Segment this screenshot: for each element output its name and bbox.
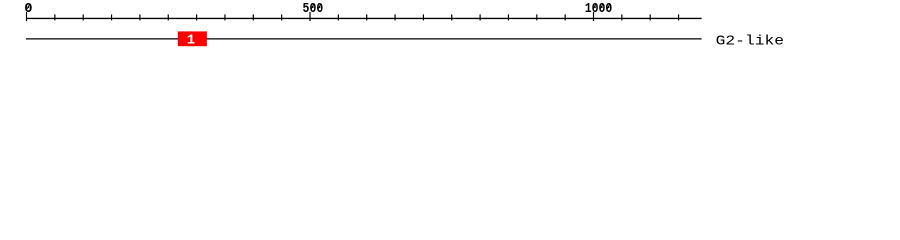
minor tick 350: [224, 14, 226, 20]
minor tick 750: [451, 14, 453, 20]
svg-text:G2-like: G2-like: [716, 33, 785, 49]
minor tick 200: [139, 14, 141, 20]
minor tick 700: [422, 14, 424, 20]
minor tick 400: [252, 14, 254, 20]
minor tick 100: [82, 14, 84, 20]
motif 1 box: [178, 31, 207, 46]
slashed-zero strokes for label 1000: [593, 4, 596, 9]
minor tick 300: [196, 14, 198, 20]
svg-text:1: 1: [187, 32, 195, 48]
minor tick 50: [54, 14, 56, 20]
ruler axis line: [26, 17, 702, 19]
slashed-zero stroke for label 0: [27, 4, 30, 9]
minor tick 250: [167, 14, 169, 20]
major tick 500: [309, 12, 311, 21]
protein backbone line: [26, 38, 702, 40]
minor tick 450: [281, 14, 283, 20]
minor tick 1150: [678, 14, 680, 20]
minor tick 850: [507, 14, 509, 20]
minor tick 550: [337, 14, 339, 20]
minor tick 650: [394, 14, 396, 20]
minor tick 150: [111, 14, 113, 20]
svg-text:0: 0: [24, 1, 32, 17]
slashed-zero strokes for label 500: [311, 4, 314, 9]
svg-text:1000: 1000: [585, 1, 613, 17]
major tick 0: [26, 12, 28, 21]
minor tick 600: [366, 14, 368, 20]
minor tick 1100: [649, 14, 651, 20]
svg-text:500: 500: [303, 1, 324, 17]
minor tick 800: [479, 14, 481, 20]
minor tick 900: [536, 14, 538, 20]
minor tick 950: [564, 14, 566, 20]
minor tick 1050: [621, 14, 623, 20]
major tick 1000: [593, 12, 595, 21]
